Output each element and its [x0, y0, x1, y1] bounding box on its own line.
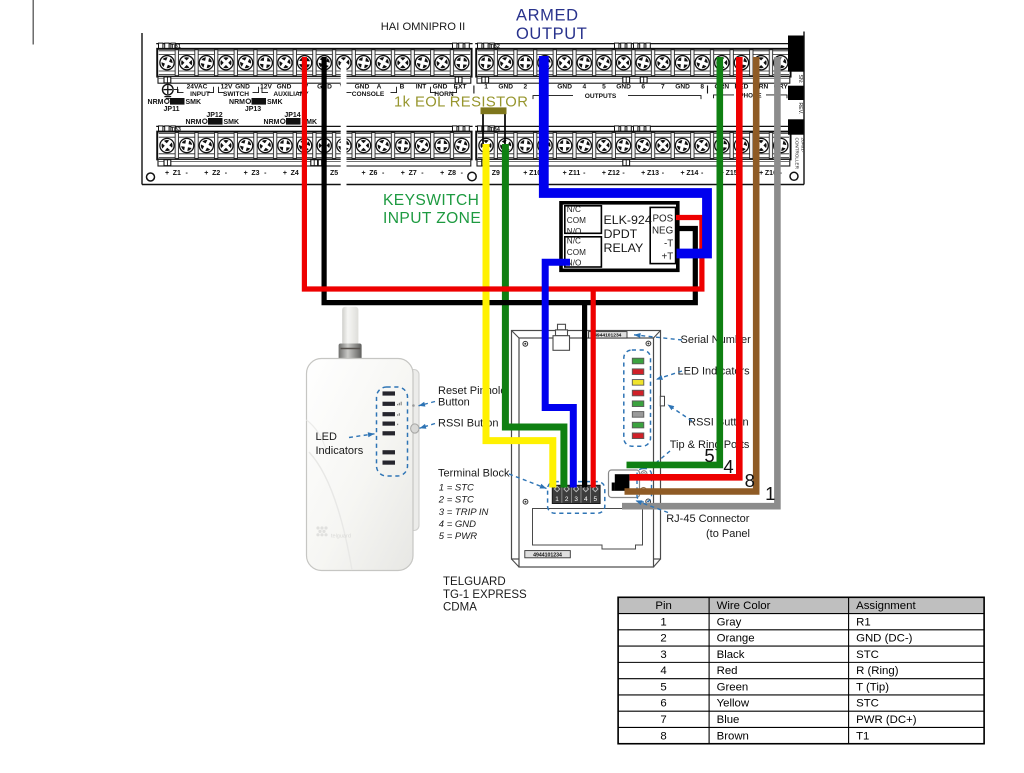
svg-text:REV.: REV. — [797, 103, 803, 115]
svg-text:Z11: Z11 — [569, 170, 581, 177]
wire blue armed output from TB2-3 to relay +T — [544, 56, 707, 254]
svg-text:PWR (DC+): PWR (DC+) — [856, 714, 917, 726]
svg-text:CDMA: CDMA — [443, 602, 477, 614]
svg-text:4 = GND: 4 = GND — [439, 519, 476, 530]
svg-text:TELGUARD: TELGUARD — [443, 576, 506, 588]
svg-text:Pin: Pin — [655, 600, 671, 612]
device LED bars — [383, 391, 396, 395]
panel door outline — [533, 509, 643, 550]
terminal strip TB4 top rail — [475, 125, 791, 127]
svg-text:2: 2 — [660, 633, 666, 645]
svg-text:GND: GND — [355, 84, 370, 91]
svg-text:Z2: Z2 — [212, 170, 220, 177]
svg-text:Green: Green — [717, 681, 749, 693]
antenna connector nut — [339, 344, 362, 361]
HAI OmniPro II board outline left edge — [141, 33, 143, 185]
svg-text:NRM: NRM — [186, 119, 202, 126]
svg-text:3 = TRIP IN: 3 = TRIP IN — [439, 507, 489, 518]
panel antenna connector — [558, 324, 566, 330]
svg-text:2: 2 — [565, 496, 569, 503]
svg-text:+: + — [759, 170, 763, 177]
svg-text:4944101234: 4944101234 — [533, 552, 562, 558]
TB1 label bracket lines — [178, 87, 184, 93]
svg-text:5: 5 — [594, 496, 598, 503]
svg-text:7: 7 — [660, 714, 666, 726]
device body flange — [399, 370, 419, 531]
terminal strip TB4 screws — [481, 140, 492, 151]
wire red drop to terminal 5 — [591, 289, 596, 488]
panel LED indicators dashed box — [624, 350, 651, 446]
svg-text:Red: Red — [717, 665, 738, 677]
reset pinhole — [412, 404, 415, 407]
svg-text:SWITCH: SWITCH — [223, 91, 249, 98]
relay contact box upper — [565, 206, 602, 234]
svg-text:OUTPUTS: OUTPUTS — [585, 93, 617, 100]
svg-text:RELAY: RELAY — [604, 241, 644, 255]
svg-text:CONTROLLER: CONTROLLER — [795, 138, 800, 170]
Telguard panel back outline — [512, 331, 661, 560]
svg-text:(to Panel: (to Panel — [706, 528, 750, 540]
svg-text:LED: LED — [316, 431, 337, 443]
svg-text:Z12: Z12 — [608, 170, 620, 177]
svg-text:Brown: Brown — [717, 730, 749, 742]
RJ-45 jack — [615, 474, 630, 491]
Telguard TG-1 device body — [307, 359, 414, 571]
svg-text:Terminal Block: Terminal Block — [438, 467, 510, 479]
svg-text:Z3: Z3 — [251, 170, 259, 177]
terminal strip TB3 screws — [162, 140, 173, 151]
svg-text:+: + — [440, 170, 444, 177]
svg-text:NRM: NRM — [229, 99, 245, 106]
svg-text:Z7: Z7 — [409, 170, 417, 177]
svg-text:TG-1 EXPRESS: TG-1 EXPRESS — [443, 589, 527, 601]
svg-text:5: 5 — [602, 84, 606, 91]
svg-text:Z5: Z5 — [330, 170, 338, 177]
svg-text:1 = STC: 1 = STC — [439, 483, 474, 494]
wire black from TB1 GND to relay NEG — [324, 57, 695, 303]
svg-text:20A01-: 20A01- — [801, 138, 806, 153]
panel LEDs — [632, 358, 644, 364]
svg-text:DPDT: DPDT — [604, 227, 638, 241]
svg-text:STC: STC — [856, 649, 879, 661]
svg-text:N/C: N/C — [567, 205, 581, 214]
svg-text:A: A — [377, 84, 382, 91]
terminal strip TB3 top rail — [156, 125, 472, 127]
terminal strip TB2 screws — [481, 57, 492, 68]
svg-text:4: 4 — [584, 496, 588, 503]
svg-text:Z8: Z8 — [448, 170, 456, 177]
white wire from TB1 console to board edge — [341, 63, 347, 187]
svg-text:+: + — [641, 170, 645, 177]
panel terminal block — [552, 485, 600, 503]
svg-text:-T: -T — [664, 239, 673, 250]
svg-text:6: 6 — [660, 698, 666, 710]
svg-text:3: 3 — [660, 649, 666, 661]
svg-text:+: + — [680, 170, 684, 177]
svg-text:GND (DC-): GND (DC-) — [856, 633, 913, 645]
terminal strip TB1 screws — [162, 57, 173, 68]
svg-text:Z13: Z13 — [647, 170, 659, 177]
svg-text:+: + — [523, 170, 527, 177]
wire blue from relay N/O to terminal 3 — [545, 262, 573, 487]
svg-text:CONSOLE: CONSOLE — [352, 91, 385, 98]
relay contact box lower — [565, 237, 602, 267]
svg-text:TB3: TB3 — [171, 127, 181, 133]
svg-text:TB2: TB2 — [490, 44, 500, 50]
right edge connector block CONTROLLER — [788, 119, 804, 134]
svg-text:+: + — [602, 170, 606, 177]
svg-text:Z14: Z14 — [686, 170, 698, 177]
svg-text:1: 1 — [660, 616, 666, 628]
svg-text:Blue: Blue — [717, 714, 740, 726]
svg-text:JP13: JP13 — [245, 106, 261, 113]
svg-text:5 = PWR: 5 = PWR — [439, 531, 477, 542]
svg-text:NEG: NEG — [652, 225, 673, 236]
panel corner diagonals — [512, 331, 520, 339]
Telguard panel front face — [519, 338, 654, 567]
relay ELK-924 outer box U1 — [561, 203, 678, 270]
svg-text:NRM: NRM — [148, 99, 164, 106]
wire color table — [618, 597, 984, 613]
svg-text:JP12: JP12 — [206, 112, 222, 119]
page-edge artifact line top-left — [32, 0, 34, 45]
svg-text:+: + — [244, 170, 248, 177]
svg-text:+T: +T — [661, 251, 673, 262]
svg-text:Assignment: Assignment — [856, 600, 916, 612]
svg-text:COM: COM — [567, 216, 586, 225]
panel corner screws — [523, 341, 528, 346]
svg-text:+: + — [165, 170, 169, 177]
terminal strip TB1 lower rail — [158, 77, 471, 84]
mounting hole left — [147, 173, 155, 181]
device seam — [309, 452, 352, 570]
wire phone green GRN to RJ45 pin5 — [627, 57, 720, 465]
terminal block dashed outline — [548, 482, 605, 514]
terminal strip TB3 lower rail — [158, 159, 471, 166]
svg-text:HAI OMNIPRO II: HAI OMNIPRO II — [381, 21, 466, 33]
svg-text:4: 4 — [723, 456, 733, 477]
svg-text:Gray: Gray — [717, 616, 742, 628]
svg-text:Button: Button — [438, 396, 470, 408]
RSSI button on device — [411, 424, 419, 433]
svg-text:Indicators: Indicators — [316, 445, 364, 457]
svg-text:Z9: Z9 — [492, 170, 500, 177]
svg-text:4: 4 — [582, 84, 586, 91]
svg-text:6: 6 — [641, 84, 645, 91]
svg-text:telguard: telguard — [331, 534, 351, 540]
terminal strip TB2 top rail — [475, 43, 791, 45]
wire green EOL from Z9- to terminal 2 — [505, 144, 564, 488]
panel RSSI button tab — [660, 396, 664, 406]
svg-text:4944101234: 4944101234 — [594, 333, 621, 339]
svg-text:R (Ring): R (Ring) — [856, 665, 899, 677]
svg-text:Z1: Z1 — [173, 170, 181, 177]
svg-text:+: + — [283, 170, 287, 177]
svg-text:1: 1 — [555, 496, 559, 503]
terminal strip TB1 body — [157, 49, 471, 77]
resistor 1k EOL body — [481, 107, 507, 114]
terminal strip TB1 top rail — [156, 43, 472, 45]
device logo dots — [316, 526, 319, 529]
svg-text:R1: R1 — [856, 616, 871, 628]
svg-text:1k EOL RESISTOR: 1k EOL RESISTOR — [394, 95, 528, 111]
svg-text:T (Tip): T (Tip) — [856, 681, 889, 693]
svg-text:TB4: TB4 — [490, 127, 500, 133]
svg-text:Z6: Z6 — [369, 170, 377, 177]
svg-text:POS: POS — [652, 213, 673, 224]
svg-text:JP11: JP11 — [164, 106, 180, 113]
wire black drop to terminal 4 — [582, 303, 587, 488]
terminal strip TB3 body — [157, 132, 471, 160]
wire yellow from Z9+ to terminal 1 — [486, 144, 553, 488]
RJ-45 housing — [609, 470, 640, 498]
svg-text:COM: COM — [567, 248, 586, 257]
svg-text:GND: GND — [433, 84, 448, 91]
svg-text:Orange: Orange — [717, 633, 755, 645]
svg-text:8: 8 — [745, 470, 755, 491]
svg-text:STC: STC — [856, 698, 879, 710]
terminal strip TB2 body — [476, 49, 790, 77]
svg-text:+: + — [204, 170, 208, 177]
svg-text:ARMED: ARMED — [516, 7, 579, 25]
terminal strip TB4 lower rail — [477, 159, 790, 166]
right edge connector block REV — [788, 86, 804, 100]
svg-text:T1: T1 — [856, 730, 869, 742]
svg-text:OUTPUT: OUTPUT — [516, 25, 587, 43]
svg-text:N/O: N/O — [567, 227, 582, 236]
divider tick between EXT and TB2 — [473, 86, 475, 94]
svg-text:12V: 12V — [221, 84, 233, 91]
svg-text:SMK: SMK — [267, 99, 283, 106]
svg-text:5: 5 — [660, 681, 666, 693]
svg-text:Z4: Z4 — [291, 170, 299, 177]
wire phone red RED to RJ45 pin4 — [630, 57, 740, 477]
mounting hole right — [790, 172, 798, 180]
device LED window dashed outline — [377, 387, 408, 476]
serial number sticker top — [589, 332, 628, 338]
svg-text:7: 7 — [661, 84, 665, 91]
svg-text:GND: GND — [557, 84, 572, 91]
svg-text:SMK: SMK — [186, 99, 202, 106]
tip and ring ports dashed outline — [637, 469, 652, 503]
HAI OmniPro II board outline right edge — [803, 32, 805, 185]
wire red from TB1 12V to relay POS — [304, 57, 702, 289]
svg-text:5: 5 — [704, 445, 714, 466]
right edge connector block SN — [788, 36, 804, 72]
svg-text:2: 2 — [523, 84, 527, 91]
relay power box POS NEG -T +T — [650, 207, 675, 263]
svg-text:Wire Color: Wire Color — [717, 600, 771, 612]
svg-text:INPUT ZONE: INPUT ZONE — [383, 210, 481, 227]
wire phone gray GRY to RJ45 pin1 — [622, 57, 777, 506]
svg-text:4: 4 — [660, 665, 666, 677]
mounting hole middle — [468, 172, 476, 180]
svg-text:GND: GND — [277, 84, 292, 91]
svg-text:INT: INT — [416, 84, 427, 91]
svg-text:8: 8 — [660, 730, 666, 742]
HAI OmniPro II board outline bottom edge — [142, 184, 804, 186]
svg-text:2 = STC: 2 = STC — [438, 495, 474, 506]
resistor 1k EOL leads — [482, 113, 484, 144]
svg-text:1: 1 — [765, 483, 775, 504]
terminal strip TB4 body — [476, 132, 790, 160]
svg-text:NRM: NRM — [264, 119, 280, 126]
svg-text:Yellow: Yellow — [717, 698, 750, 710]
svg-text:B: B — [400, 84, 405, 91]
svg-text:24VAC: 24VAC — [187, 84, 208, 91]
svg-text:Black: Black — [717, 649, 745, 661]
svg-text:1: 1 — [484, 84, 488, 91]
svg-text:ELK-924: ELK-924 — [604, 213, 652, 227]
svg-text:KEYSWITCH: KEYSWITCH — [383, 192, 479, 209]
svg-text:+: + — [563, 170, 567, 177]
terminal strip TB2 lower rail — [477, 77, 790, 84]
svg-text:+: + — [361, 170, 365, 177]
svg-text:SN:: SN: — [797, 75, 803, 84]
svg-text:GND: GND — [498, 84, 513, 91]
wire phone brown BRN to RJ45 pin8 — [625, 57, 757, 492]
svg-text:TB1: TB1 — [171, 44, 181, 50]
svg-text:3: 3 — [574, 496, 578, 503]
svg-text:N/C: N/C — [567, 237, 581, 246]
svg-text:RJ-45 Connector: RJ-45 Connector — [666, 513, 749, 525]
svg-text:EXT: EXT — [454, 84, 467, 91]
ground symbol — [163, 84, 174, 95]
svg-text:Z15: Z15 — [726, 170, 738, 177]
svg-text:GND: GND — [235, 84, 250, 91]
svg-text:GND: GND — [616, 84, 631, 91]
svg-text:SMK: SMK — [224, 119, 240, 126]
svg-text:8: 8 — [700, 84, 704, 91]
serial number box bottom — [525, 551, 571, 558]
svg-text:GND: GND — [675, 84, 690, 91]
svg-text:INPUT: INPUT — [190, 91, 210, 98]
svg-text:+: + — [401, 170, 405, 177]
svg-text:JP14: JP14 — [284, 112, 300, 119]
svg-text:Reset Pinhole: Reset Pinhole — [438, 385, 507, 397]
device LED signal glyphs — [397, 404, 398, 405]
